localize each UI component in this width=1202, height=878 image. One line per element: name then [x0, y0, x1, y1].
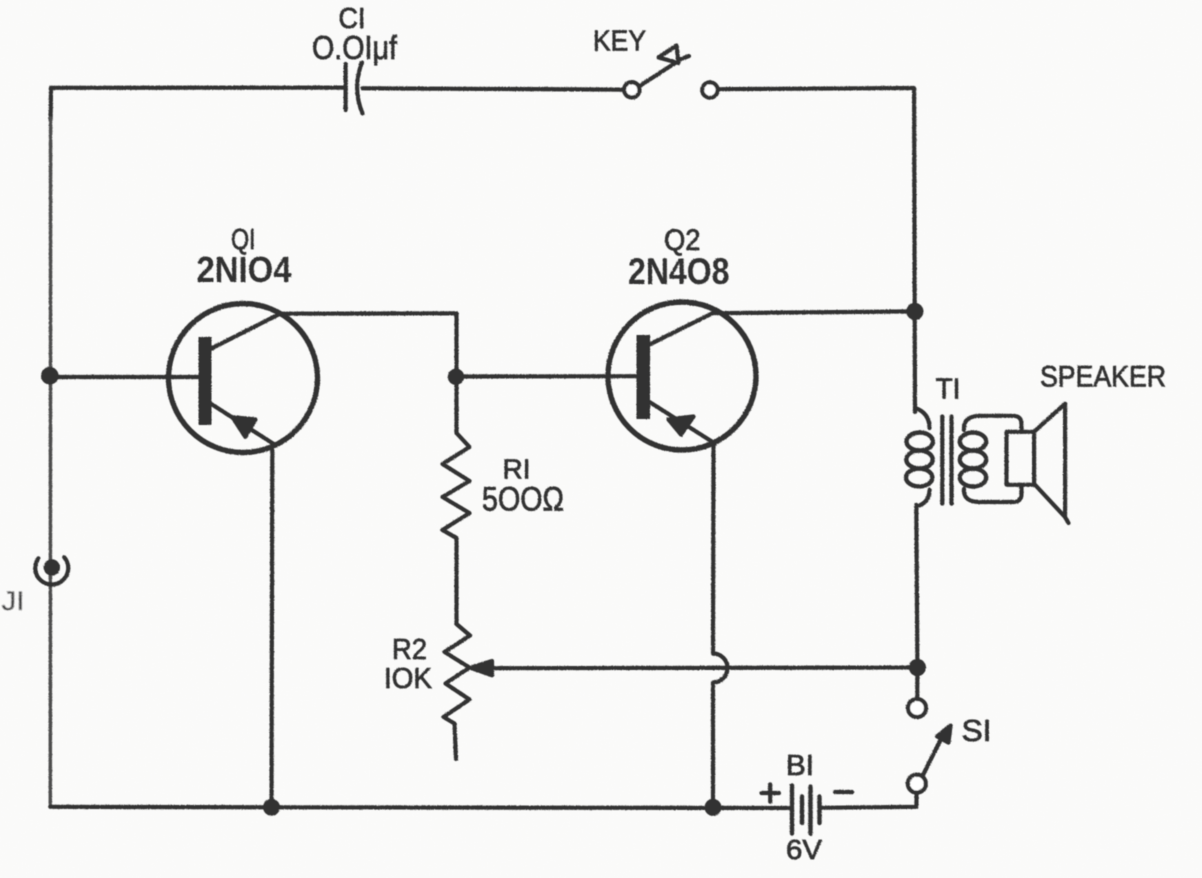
svg-text:5OOΩ: 5OOΩ [482, 481, 564, 519]
switch S1 arm arrowhead [937, 726, 950, 743]
speaker driver rectangle [1007, 432, 1035, 485]
transformer T1 primary coil entry [915, 408, 929, 428]
svg-text:SI: SI [962, 713, 992, 748]
transistor Q2 emitter arrow [669, 417, 694, 435]
switch S1 upper terminal [908, 699, 926, 717]
svg-text:2NIO4: 2NIO4 [197, 249, 293, 290]
switch S1 stub from junction [915, 668, 919, 700]
svg-text:O.OIμf: O.OIμf [312, 29, 398, 66]
wire left rail [49, 118, 53, 807]
wire top-left rail segment [51, 88, 345, 120]
wire Q2 collector to right rail [713, 311, 915, 313]
node Q1 emitter bottom junction [263, 799, 280, 816]
node Q1 collector / R1 / Q2 base junction [448, 369, 464, 385]
capacitor C1 left plate [344, 64, 348, 110]
svg-text:TI: TI [936, 374, 961, 406]
battery B1 plate long [808, 787, 812, 834]
node wiper right rail junction [909, 659, 926, 676]
transformer T1 core line right [949, 417, 953, 504]
wire Q1 base from left rail [50, 375, 198, 379]
transformer T1 primary loop 1 [907, 433, 933, 451]
transistor Q2 circle [608, 302, 756, 450]
wire R2 wiper to right rail [488, 665, 917, 670]
wire S1 lower terminal to bottom rail and battery [820, 793, 917, 808]
transistor Q2 collector lead [650, 313, 713, 344]
svg-text:SPEAKER: SPEAKER [1040, 361, 1166, 394]
transistor Q1 emitter arrow [233, 417, 256, 437]
transformer T1 primary coil exit [916, 490, 929, 507]
transformer T1 primary loop 3 [906, 469, 932, 487]
node right rail collector junction [906, 303, 923, 320]
battery B1 plus sign [762, 784, 780, 802]
jack J1 dot [44, 559, 60, 575]
switch KEY knob tail [679, 56, 690, 60]
jack J1 arc [35, 557, 68, 584]
transformer T1 primary loop 2 [906, 451, 932, 469]
transistor Q1 emitter lead [211, 404, 275, 445]
wire junction to Q2 base [457, 374, 638, 378]
switch KEY right terminal [702, 82, 717, 97]
transistor Q1 circle [169, 304, 318, 453]
transistor Q1 base bar [199, 337, 212, 425]
svg-text:KEY: KEY [593, 26, 646, 58]
transistor Q1 collector lead [211, 314, 281, 349]
potentiometer R2 zigzag [444, 624, 471, 759]
svg-text:6V: 6V [786, 834, 822, 865]
wire C1 to KEY [363, 88, 624, 89]
wire Q2 emitter down with hop over wiper wire [713, 444, 728, 808]
node left rail base junction [41, 367, 59, 385]
transformer T1 secondary loop 1 [960, 433, 986, 451]
transistor Q2 emitter lead [650, 402, 716, 444]
resistor R1 zigzag [443, 433, 470, 624]
transistor Q2 base bar [637, 335, 651, 419]
switch KEY arm [640, 63, 676, 87]
transformer T1 secondary loop 2 [960, 451, 986, 469]
wire bottom rail left segment [50, 807, 791, 808]
battery B1 plate short [800, 797, 804, 824]
speaker cone [1034, 404, 1069, 523]
switch KEY knob triangle [659, 46, 679, 64]
battery B1 minus sign [835, 790, 852, 794]
potentiometer R2 wiper arrow [471, 661, 493, 675]
wire Q1 collector to R1 top [280, 313, 457, 433]
svg-text:2N4O8: 2N4O8 [628, 251, 730, 292]
transformer T1 secondary bottom wire to speaker [964, 485, 1022, 502]
transformer T1 secondary loop 3 [960, 469, 986, 487]
svg-text:R2: R2 [392, 634, 427, 666]
svg-text:IOK: IOK [384, 663, 433, 695]
battery B1 plate long positive [790, 786, 794, 834]
wire T1 primary down to wiper junction [916, 505, 917, 668]
wire KEY to top-right corner down to T1 [718, 88, 915, 412]
svg-text:BI: BI [786, 750, 814, 782]
transformer T1 core line left [940, 417, 944, 504]
switch S1 arm [924, 734, 944, 774]
capacitor C1 right plate (curved) [357, 63, 362, 114]
battery B1 plate short negative [817, 797, 821, 824]
transformer T1 secondary top wire to speaker [964, 416, 1022, 432]
switch S1 lower terminal [908, 775, 926, 793]
node Q2 emitter bottom junction [705, 799, 722, 816]
switch KEY left terminal [624, 82, 639, 97]
wire Q1 emitter down to bottom rail [269, 444, 274, 807]
svg-text:JI: JI [2, 586, 25, 616]
